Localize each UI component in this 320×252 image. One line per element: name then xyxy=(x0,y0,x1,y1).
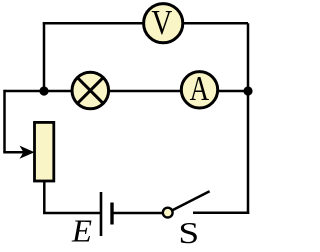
wire: bottom horizontal to battery xyxy=(43,212,100,215)
wire: left vertical down to rheostat arrow xyxy=(3,90,6,152)
switch S: lever arm xyxy=(168,191,210,212)
rheostat R1 (slide resistor body) xyxy=(35,122,54,181)
svg-text:S: S xyxy=(178,215,199,250)
lamp L1 xyxy=(72,72,109,109)
node A: left junction dot xyxy=(39,86,48,95)
wire: battery to switch xyxy=(113,212,165,215)
wire: vertical below rheostat xyxy=(43,181,46,213)
wire: right vertical xyxy=(247,23,250,214)
battery E: long plate xyxy=(100,192,103,236)
wire: middle row horizontal xyxy=(5,90,249,93)
svg-text:A: A xyxy=(190,70,210,108)
wire: top horizontal (voltmeter branch) xyxy=(43,22,248,25)
node B: right junction dot xyxy=(243,86,252,95)
wire: switch right contact to right vertical xyxy=(193,211,249,214)
wire: arrow horizontal into rheostat xyxy=(3,151,24,154)
arrowhead of rheostat wiper xyxy=(20,146,35,159)
switch S: pivot circle xyxy=(163,208,173,218)
wire: top-left vertical from top loop to node A xyxy=(43,22,46,91)
battery E: short plate xyxy=(110,203,113,225)
svg-text:E: E xyxy=(71,212,92,248)
svg-text:V: V xyxy=(151,4,172,42)
ammeter A1 xyxy=(181,72,217,108)
voltmeter V1 xyxy=(144,4,183,43)
